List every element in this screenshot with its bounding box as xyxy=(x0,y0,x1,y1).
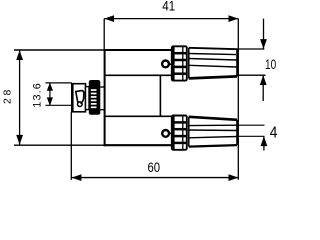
knob plate (escutcheon) xyxy=(72,84,86,112)
top nut xyxy=(172,46,187,80)
extension line 28 top xyxy=(14,49,104,51)
bottom circle link xyxy=(169,132,172,134)
body internal line upper boss bottom xyxy=(105,74,172,76)
knob (knurled handle) xyxy=(89,80,101,115)
knob shaft bottom edge xyxy=(100,109,104,111)
body recess vertical edge xyxy=(159,75,161,116)
bottom hose cone xyxy=(189,117,237,147)
top hose cone xyxy=(189,48,237,79)
dimension 4 arrow xyxy=(261,136,268,150)
body internal line lower boss top xyxy=(105,115,172,117)
body outline xyxy=(104,49,172,146)
plate icon (hand shower pictogram) xyxy=(76,91,84,107)
svg-text:28: 28 xyxy=(2,87,14,104)
extension line 10 top (tip top edge) xyxy=(237,48,264,50)
top circle link xyxy=(169,63,172,65)
extension line 60 left (plate face) xyxy=(70,112,72,180)
knob shaft top edge xyxy=(100,86,104,88)
extension line 4 top xyxy=(237,124,265,126)
dimension 10 upper arrow xyxy=(260,19,267,49)
bottom port circle xyxy=(162,130,169,137)
extension line right (hose tip, shared by 41 and 60) xyxy=(237,19,239,180)
dimension 41 line xyxy=(104,15,238,22)
extension line left of 41 (body left face) xyxy=(103,19,105,50)
extension line 4 bottom xyxy=(237,135,265,137)
dimension 10 lower arrow xyxy=(260,75,267,101)
svg-text:13.6: 13.6 xyxy=(31,82,43,107)
svg-text:4: 4 xyxy=(270,124,278,141)
svg-text:10: 10 xyxy=(265,57,276,72)
dimension 13.6 xyxy=(46,83,72,106)
extension line 28 bottom xyxy=(14,144,104,146)
extension line 10 bottom (tip bottom edge) xyxy=(237,74,266,76)
bottom nut xyxy=(172,116,187,150)
dimension 28 line xyxy=(16,50,23,145)
svg-text:41: 41 xyxy=(162,0,175,13)
knob collar xyxy=(86,87,90,110)
dimension 60 line xyxy=(71,174,238,181)
top port circle xyxy=(162,61,169,68)
svg-text:60: 60 xyxy=(148,160,161,175)
